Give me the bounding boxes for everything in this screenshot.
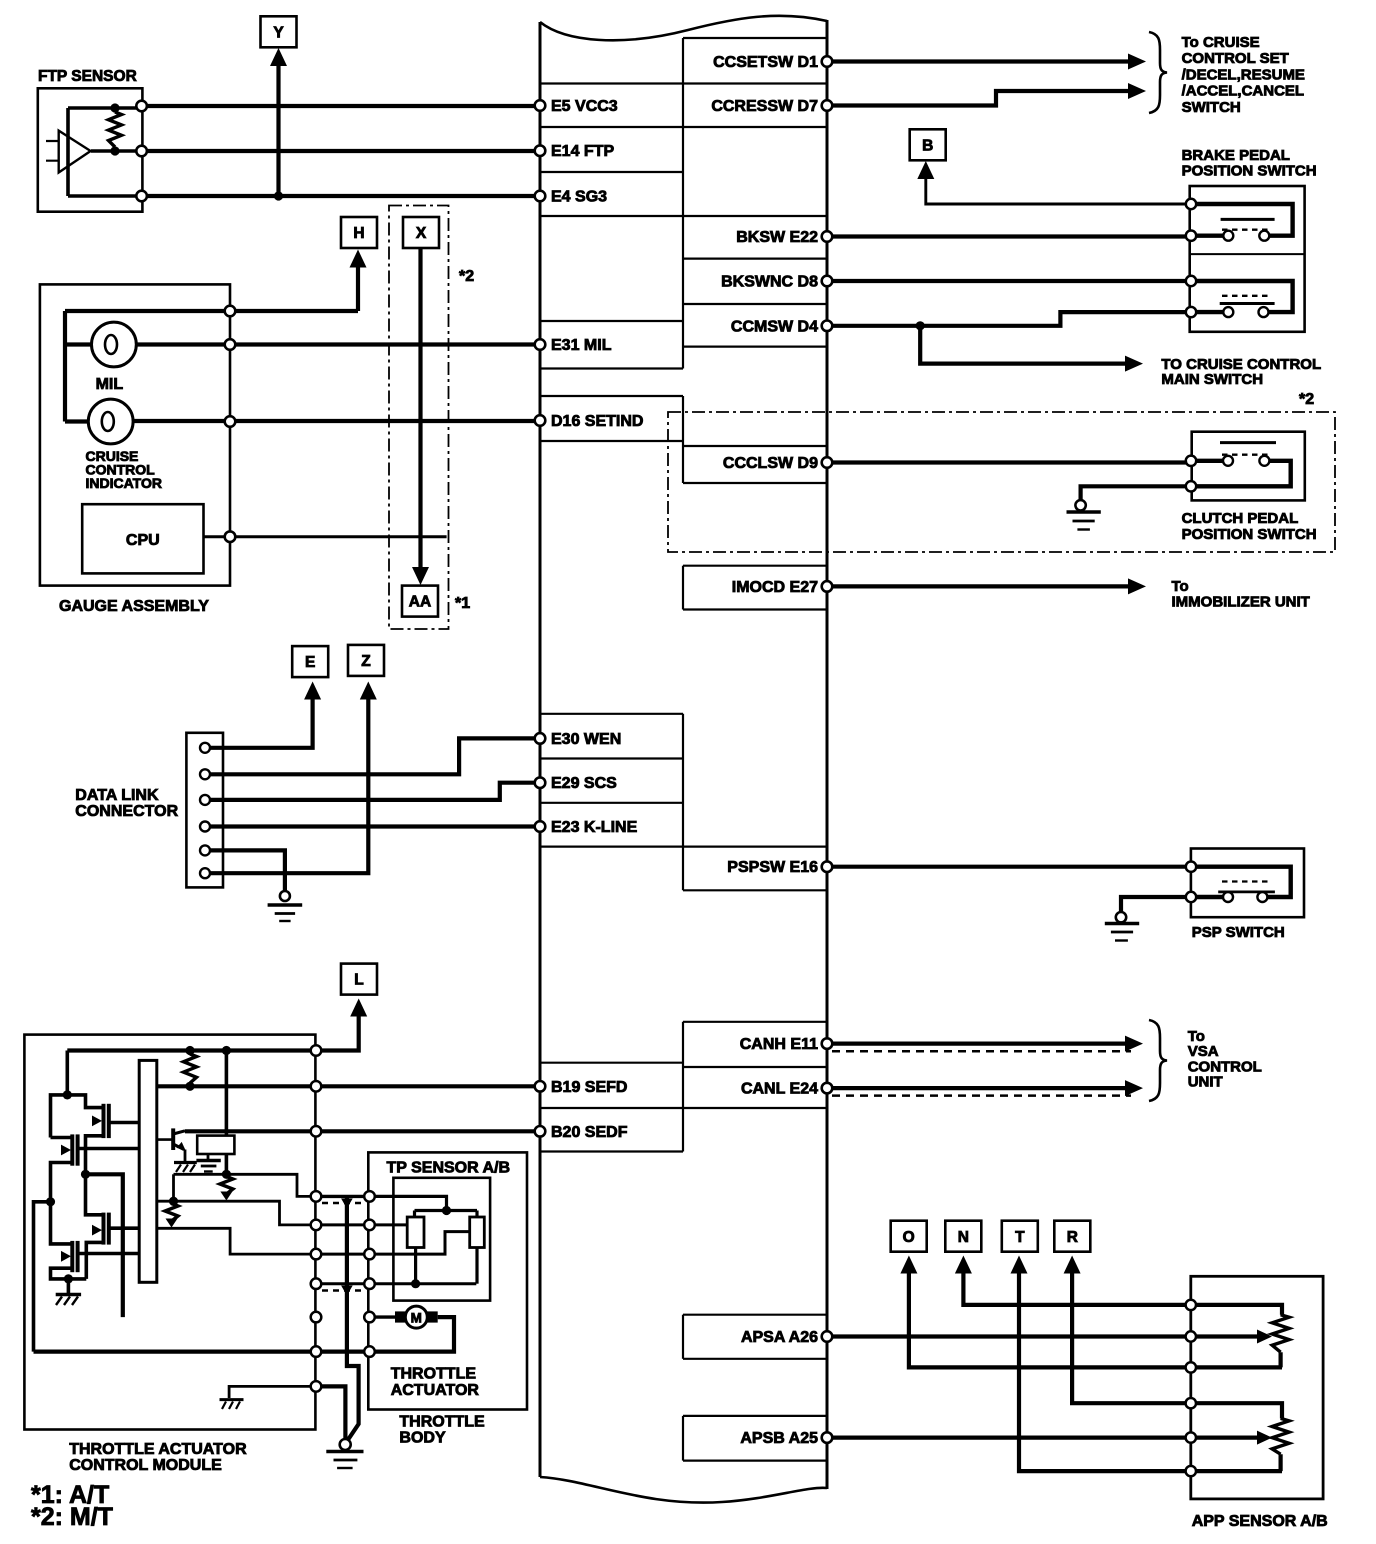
gauge assembly box: [40, 284, 230, 585]
svg-text:X: X: [416, 225, 427, 242]
DLC wire 4 to E23 K-LINE: [207, 824, 540, 828]
svg-text:THROTTLE: THROTTLE: [399, 1414, 485, 1431]
wire X to AA: [418, 248, 422, 570]
connector N box: [945, 1221, 981, 1252]
module bridge ground: [67, 1279, 71, 1293]
wire CCMSW D4: [827, 312, 1187, 326]
wire brake switch to connector B: [926, 177, 1191, 204]
svg-text:T: T: [1015, 1229, 1025, 1246]
connector H box: [341, 217, 377, 248]
node junction on SG3 wire: [274, 191, 283, 200]
relay coil box: [197, 1136, 234, 1154]
shield drain wire: [347, 1196, 359, 1440]
svg-text:L: L: [354, 972, 363, 989]
wire gauge to connector H: [65, 309, 358, 313]
brake pedal position switch box: [1190, 186, 1305, 332]
module ground at throttle body: [321, 1386, 345, 1438]
brace cruise control switch: [1149, 32, 1167, 113]
TP resistor A: [407, 1217, 424, 1248]
FTP sensor internal amplifier: [68, 108, 142, 196]
svg-text:*2: *2: [1299, 391, 1314, 408]
svg-text:D16 SETIND: D16 SETIND: [551, 413, 643, 430]
wire CCRESSW D7 to cruise switch: [827, 91, 1129, 106]
wire CCSETSW D1 to cruise switch: [827, 59, 1129, 63]
svg-text:To CRUISE: To CRUISE: [1182, 34, 1260, 51]
svg-text:BRAKE PEDAL: BRAKE PEDAL: [1182, 147, 1290, 164]
svg-text:CCMSW D4: CCMSW D4: [731, 318, 818, 335]
svg-text:APSB A25: APSB A25: [740, 1430, 818, 1447]
svg-text:*2: *2: [459, 268, 474, 285]
TP sensor A/B box: [393, 1178, 490, 1301]
svg-text:E29 SCS: E29 SCS: [551, 775, 617, 792]
module output node: [81, 1170, 90, 1179]
svg-text:APSA A26: APSA A26: [741, 1329, 818, 1346]
svg-text:POSITION SWITCH: POSITION SWITCH: [1182, 526, 1317, 543]
connector B box: [910, 129, 946, 160]
throttle actuator control module box: [24, 1035, 315, 1430]
ECM band left edge: [539, 22, 542, 1477]
wire connector R to APP row4: [1072, 1272, 1187, 1403]
cruise control indicator bulb: [65, 419, 88, 423]
wire BKSWNC D8: [827, 279, 1187, 283]
MOSFET bridge supply drop: [66, 1051, 70, 1095]
motor return wire: [34, 1317, 455, 1352]
relay ground: [207, 1154, 210, 1160]
svg-text:BKSW E22: BKSW E22: [736, 229, 818, 246]
svg-text:APP SENSOR A/B: APP SENSOR A/B: [1192, 1513, 1328, 1530]
wire connector N to APP row1: [963, 1272, 1187, 1305]
svg-text:CCSETSW D1: CCSETSW D1: [713, 54, 818, 71]
DLC pin circles: [200, 743, 210, 753]
svg-text:BODY: BODY: [399, 1430, 446, 1447]
wire APSA A26: [827, 1334, 1259, 1338]
svg-text:TP SENSOR A/B: TP SENSOR A/B: [387, 1160, 511, 1177]
svg-text:AA: AA: [409, 594, 431, 611]
svg-text:CLUTCH PEDAL: CLUTCH PEDAL: [1182, 510, 1299, 527]
svg-text:INDICATOR: INDICATOR: [86, 475, 162, 491]
MOSFET Q-C: [102, 1213, 106, 1245]
PSP terminals: [1186, 862, 1196, 872]
clutch switch ground: [1081, 486, 1191, 500]
wire to TB row2: [157, 1201, 311, 1225]
svg-text:Z: Z: [361, 653, 371, 670]
clutch pedal position switch box: [1192, 432, 1305, 501]
ECM band right edge: [826, 20, 829, 1489]
wire CANL E24 to VSA: [827, 1086, 1126, 1090]
ECM band middle vertical line segments: [682, 38, 684, 369]
svg-text:PSPSW E16: PSPSW E16: [727, 859, 818, 876]
svg-text:B19 SEFD: B19 SEFD: [551, 1079, 627, 1096]
connector X box: [403, 217, 439, 248]
svg-text:FTP SENSOR: FTP SENSOR: [38, 68, 137, 85]
resistor R2: [222, 1170, 231, 1179]
dash-dot box *2 clutch circuit: [668, 412, 1335, 552]
svg-text:SWITCH: SWITCH: [1182, 99, 1241, 116]
svg-text:O: O: [903, 1229, 915, 1246]
svg-text:*2: M/T: *2: M/T: [31, 1503, 113, 1531]
clutch switch terminals: [1186, 456, 1196, 466]
CPU box: [82, 504, 203, 573]
APP sensor box: [1191, 1276, 1323, 1499]
APP pot B: [1193, 1403, 1282, 1418]
MIL bulb: [65, 342, 92, 346]
DLC wire 6 to connector Z: [207, 699, 368, 873]
ECM/PCM connector band torn top edge: [540, 16, 827, 41]
svg-text:THROTTLE: THROTTLE: [391, 1366, 477, 1383]
transistor emitter ground: [174, 1161, 197, 1164]
svg-text:E23 K-LINE: E23 K-LINE: [551, 819, 638, 836]
gauge assembly left rail: [63, 311, 67, 422]
svg-text:CONTROL SET: CONTROL SET: [1182, 50, 1289, 67]
svg-text:GAUGE ASSEMBLY: GAUGE ASSEMBLY: [59, 598, 209, 615]
svg-text:E30 WEN: E30 WEN: [551, 731, 621, 748]
svg-text:E14 FTP: E14 FTP: [551, 143, 614, 160]
svg-text:CANL E24: CANL E24: [741, 1081, 818, 1098]
ECM band torn bottom edge: [540, 1477, 827, 1503]
DLC wire 1 to connector E: [207, 699, 313, 748]
wire FTP VCC3 to E5: [142, 104, 540, 108]
svg-text:E4 SG3: E4 SG3: [551, 189, 607, 206]
wire BKSW E22: [827, 234, 1187, 238]
row4 sensor ground: [311, 1282, 476, 1285]
connector T box: [1002, 1221, 1038, 1252]
svg-text:IMOCD E27: IMOCD E27: [732, 579, 818, 596]
MOSFET Q-D: [70, 1241, 74, 1272]
module edge terminals: [311, 1045, 322, 1056]
svg-text:H: H: [353, 225, 364, 242]
svg-text:THROTTLE ACTUATOR: THROTTLE ACTUATOR: [69, 1441, 247, 1458]
FTP sensor internal resistor: [109, 112, 122, 147]
dash-dot box *1/*2 around X-AA wire: [389, 206, 449, 630]
wire B19 SEFD: [157, 1084, 540, 1088]
DLC wire 3 to E29 SCS: [207, 783, 540, 800]
module internal vertical to relay: [225, 1051, 229, 1175]
svg-text:CCCLSW D9: CCCLSW D9: [723, 455, 818, 472]
svg-text:CONTROL MODULE: CONTROL MODULE: [69, 1457, 222, 1474]
svg-text:MIL: MIL: [96, 376, 124, 393]
svg-text:POSITION SWITCH: POSITION SWITCH: [1182, 163, 1317, 180]
wire to TB row3: [157, 1228, 311, 1254]
row1 sensor supply: [321, 1195, 365, 1198]
wire module to connector L: [322, 1015, 359, 1051]
PSP switch ground: [1121, 897, 1191, 912]
svg-text:CCRESSW D7: CCRESSW D7: [711, 98, 818, 115]
svg-text:DATA LINK: DATA LINK: [75, 787, 159, 804]
PSP switch box: [1191, 849, 1304, 918]
wire CCCLSW D9: [827, 460, 1187, 464]
gauge assembly terminals: [225, 306, 236, 317]
module top supply rail: [67, 1048, 311, 1052]
svg-text:N: N: [958, 1229, 969, 1246]
connector E box: [292, 646, 328, 677]
svg-text:/DECEL,RESUME: /DECEL,RESUME: [1182, 66, 1305, 83]
svg-text:CPU: CPU: [126, 532, 160, 549]
wire connector T to APP row6: [1019, 1272, 1187, 1471]
wire CANH E11 to VSA: [827, 1041, 1126, 1045]
svg-text:BKSWNC D8: BKSWNC D8: [721, 274, 818, 291]
svg-text:/ACCEL,CANCEL: /ACCEL,CANCEL: [1182, 83, 1305, 100]
wire APSB A25: [827, 1435, 1259, 1439]
DLC ground: [280, 891, 290, 901]
wire FTP output to E14: [142, 149, 540, 153]
svg-text:MAIN SWITCH: MAIN SWITCH: [1161, 371, 1263, 388]
transistor Q1: [171, 1128, 175, 1150]
wire B20 SEDF: [185, 1129, 540, 1133]
svg-text:UNIT: UNIT: [1188, 1074, 1223, 1091]
wire FTP ground to E4 SG3: [142, 194, 540, 198]
svg-text:To: To: [1172, 578, 1189, 595]
TP resistor B: [470, 1217, 485, 1248]
connector L box: [341, 964, 377, 995]
wire CPU output: [204, 535, 447, 538]
connector R box: [1054, 1221, 1090, 1252]
svg-text:PSP SWITCH: PSP SWITCH: [1192, 924, 1285, 941]
ECM band cell divider lines: [540, 82, 827, 84]
svg-text:R: R: [1067, 1229, 1078, 1246]
wire to connector Y: [276, 62, 280, 196]
svg-text:CANH E11: CANH E11: [740, 1036, 818, 1053]
DLC wire 2 to E30 WEN: [207, 738, 540, 774]
connector AA box: [402, 586, 438, 617]
FTP sensor terminal circles: [136, 101, 147, 112]
ECM right pin terminals and labels: [822, 56, 833, 67]
MOSFET Q-A: [67, 1095, 103, 1108]
data link connector box: [186, 733, 223, 888]
svg-text:E5 VCC3: E5 VCC3: [551, 98, 618, 115]
row2 TP A wiper: [311, 1223, 407, 1226]
svg-text:M: M: [411, 1310, 422, 1325]
throttle body edge terminals: [364, 1191, 375, 1202]
FTP sensor box: [38, 88, 143, 211]
throttle actuator motor: [395, 1311, 408, 1322]
MOSFET Q-B: [70, 1134, 74, 1165]
brake switch upper (NO) contact set: [1193, 204, 1293, 236]
APP pot A: [1193, 1305, 1282, 1315]
APP terminals: [1186, 1300, 1196, 1310]
svg-text:E31 MIL: E31 MIL: [551, 337, 612, 354]
connector O box: [891, 1221, 927, 1252]
row3 TP B wiper: [311, 1232, 470, 1255]
resistor R-top: [184, 1054, 197, 1083]
wire IMOCD E27 to immobilizer: [827, 584, 1129, 588]
brake switch lower (NC) contact set: [1193, 281, 1293, 312]
DLC wire 5 to ground: [207, 850, 285, 891]
svg-text:E: E: [305, 654, 315, 671]
brake switch terminals: [1186, 199, 1196, 209]
svg-text:Y: Y: [273, 24, 284, 41]
wire connector O to APP row3: [909, 1272, 1187, 1367]
connector Y box: [261, 16, 297, 47]
svg-text:B20 SEDF: B20 SEDF: [551, 1124, 628, 1141]
svg-text:*1: *1: [455, 595, 470, 612]
motor row wire: [374, 1315, 397, 1318]
wire to TB row1: [174, 1174, 312, 1196]
wire PSPSW E16: [827, 865, 1187, 869]
connector Z box: [348, 645, 384, 676]
module left rail to motor-return: [34, 1202, 51, 1352]
gate driver bar: [139, 1060, 157, 1282]
svg-text:CONNECTOR: CONNECTOR: [75, 803, 178, 820]
resistor R3: [165, 1204, 178, 1222]
brace VSA control unit: [1149, 1020, 1167, 1101]
svg-text:ACTUATOR: ACTUATOR: [391, 1382, 480, 1399]
ECM left pin terminals and labels: [535, 100, 546, 111]
svg-text:B: B: [922, 137, 933, 154]
module ground wire row: [229, 1386, 311, 1398]
svg-text:IMMOBILIZER UNIT: IMMOBILIZER UNIT: [1172, 594, 1310, 611]
throttle body box: [368, 1152, 527, 1409]
wire to cruise control main switch: [920, 326, 1126, 364]
